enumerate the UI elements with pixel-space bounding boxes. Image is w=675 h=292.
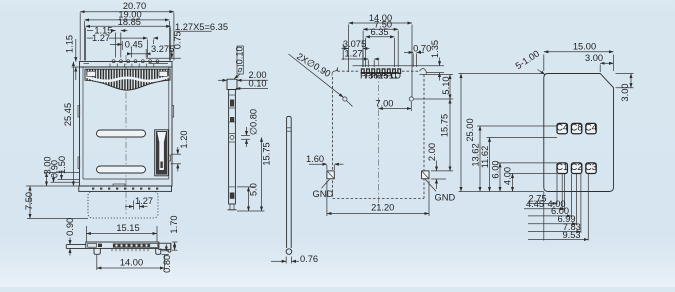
dim 0.45 xyxy=(110,43,122,45)
dim 1.27 card xyxy=(125,196,153,210)
body bottom inner line xyxy=(83,178,169,180)
body inner edge lines xyxy=(82,67,84,179)
pads row xyxy=(361,68,401,74)
dim 0.80 rotated xyxy=(162,250,169,252)
dim 1.35 rotated xyxy=(353,65,445,67)
oval slot 1 xyxy=(97,130,146,137)
svg-text:C4: C4 xyxy=(556,123,568,133)
svg-text:14.00: 14.00 xyxy=(120,258,143,268)
break squiggle right xyxy=(420,69,427,75)
dim 1.27 D xyxy=(367,60,369,67)
dim 0.90 xyxy=(53,175,55,183)
svg-text:1.27: 1.27 xyxy=(135,196,153,206)
svg-text:25.00: 25.00 xyxy=(465,118,475,141)
svg-text:0.75: 0.75 xyxy=(172,31,182,49)
svg-text:1.35: 1.35 xyxy=(430,40,440,58)
svg-text:5.0: 5.0 xyxy=(249,183,259,196)
dim 6.00 b xyxy=(528,215,571,217)
break squiggle left xyxy=(332,67,338,76)
right bar xyxy=(159,243,171,249)
flange solder marks xyxy=(92,188,158,190)
svg-text:0.80: 0.80 xyxy=(162,255,172,273)
dim 1.15 top xyxy=(115,33,117,58)
left tail xyxy=(66,244,86,246)
dim 1.27 top xyxy=(147,40,149,58)
dim 5.0 rotated xyxy=(237,186,255,188)
ball tip xyxy=(286,249,292,255)
hole circle xyxy=(230,135,234,139)
svg-text:6.00: 6.00 xyxy=(491,160,501,178)
svg-text:0.10: 0.10 xyxy=(235,46,245,64)
front body xyxy=(86,242,159,248)
svg-text:21.20: 21.20 xyxy=(371,203,394,213)
centerline xyxy=(125,55,127,214)
label 5-1.00 xyxy=(514,48,542,71)
holes 2x xyxy=(343,97,347,101)
dim 15.75 D rotated xyxy=(431,170,453,172)
dim 0.76 xyxy=(285,257,287,264)
pins row circles xyxy=(112,60,159,63)
centerline xyxy=(377,60,379,206)
plate step lines xyxy=(84,63,90,65)
dim 15.75 rotated xyxy=(237,210,265,212)
dim 2.00 xyxy=(218,79,227,81)
svg-text:0.76: 0.76 xyxy=(300,254,318,264)
svg-text:1.60: 1.60 xyxy=(306,154,324,164)
svg-text:15.75: 15.75 xyxy=(262,142,272,165)
dim 0.10 xyxy=(236,88,268,90)
svg-text:3.075: 3.075 xyxy=(343,39,366,49)
dim 1.15 left rotated xyxy=(75,39,77,62)
dim 7.00 xyxy=(410,102,412,111)
dim 2.75 xyxy=(528,202,557,204)
dim 14.00 xyxy=(96,255,98,270)
svg-text:0.10: 0.10 xyxy=(249,79,267,89)
svg-text:GND: GND xyxy=(313,189,334,199)
dashed card outline xyxy=(88,192,158,219)
spring cutout left xyxy=(87,71,96,76)
svg-text:9.53: 9.53 xyxy=(562,230,580,240)
dim 9.53 xyxy=(528,239,588,241)
dim 3.275 xyxy=(131,47,133,58)
svg-text:7.50: 7.50 xyxy=(24,192,34,210)
switch detail xyxy=(155,130,171,176)
dim 15.15 xyxy=(85,226,87,242)
bottom flange xyxy=(79,186,172,191)
bottom dim stack xyxy=(543,192,545,241)
dim 7.83 xyxy=(528,231,581,233)
oval slot 2 xyxy=(97,166,146,173)
svg-text:1.70: 1.70 xyxy=(169,215,179,233)
flange mid notch xyxy=(113,184,125,186)
top plate bottom line xyxy=(80,66,173,68)
GND pad right xyxy=(422,171,429,179)
dim 25.45 rotated xyxy=(72,62,74,186)
head xyxy=(227,79,237,89)
dim 7.50 xyxy=(362,31,364,68)
svg-text:C8: C8 xyxy=(571,123,583,133)
dim 6.35 xyxy=(365,38,367,67)
svg-text:6.35: 6.35 xyxy=(370,27,388,37)
svg-text:1.27X5=6.35: 1.27X5=6.35 xyxy=(175,22,228,32)
svg-text:3.275: 3.275 xyxy=(151,44,174,54)
inner details xyxy=(88,243,97,247)
left dims xyxy=(459,73,544,75)
dim 3.00 xyxy=(46,173,48,186)
svg-text:4.45: 4.45 xyxy=(526,199,544,209)
svg-text:4.00: 4.00 xyxy=(503,167,513,185)
label 2X 0.90 xyxy=(295,51,332,79)
svg-text:0.45: 0.45 xyxy=(125,40,143,50)
svg-text:P7P3P6P2P5P1CD: P7P3P6P2P5P1CD xyxy=(360,70,401,80)
dim 1.20 rotated xyxy=(171,153,181,155)
svg-text:C1: C1 xyxy=(556,162,568,172)
dim 4.45 / 4.00 xyxy=(524,208,564,210)
svg-text:0.70: 0.70 xyxy=(413,43,431,53)
flatness frame xyxy=(237,46,243,74)
bottom block xyxy=(230,193,235,199)
dim 0.90 front rotated xyxy=(69,238,71,245)
svg-text:2.00: 2.00 xyxy=(427,143,437,161)
GND pad left xyxy=(327,171,334,179)
dim phi 0.80 rotated xyxy=(241,135,250,137)
dim 5.10 rotated xyxy=(420,74,454,76)
svg-text:1.15: 1.15 xyxy=(65,35,75,53)
svg-text:7.00: 7.00 xyxy=(375,99,393,109)
ext lines xyxy=(44,172,80,174)
pin ticks under body xyxy=(112,248,148,251)
dim 11.62 xyxy=(487,136,558,138)
spring band hatched xyxy=(85,69,170,90)
svg-text:C3: C3 xyxy=(585,162,597,172)
card outline xyxy=(544,74,614,192)
body outer rect xyxy=(80,62,173,187)
svg-text:2X∅0.90: 2X∅0.90 xyxy=(295,51,332,79)
dim 3.00 top xyxy=(599,65,601,73)
svg-text:GND: GND xyxy=(435,193,456,203)
dim 1.60 xyxy=(326,165,328,170)
dim 2.00 D rotated xyxy=(431,178,446,180)
svg-text:1.20: 1.20 xyxy=(179,130,189,148)
svg-text:15.75: 15.75 xyxy=(439,114,449,137)
dim 1.70 rotated xyxy=(172,241,178,243)
side tabs xyxy=(78,106,80,118)
dim 15.00 xyxy=(543,55,545,72)
dim 6.00 xyxy=(497,162,557,164)
svg-text:3.00: 3.00 xyxy=(620,83,630,101)
svg-text:5-1.00: 5-1.00 xyxy=(514,48,542,71)
svg-text:1.50: 1.50 xyxy=(57,156,67,174)
dashed outline xyxy=(338,70,360,72)
dim 3.00 right rotated xyxy=(616,73,634,75)
dim 7.50 xyxy=(29,186,31,219)
svg-text:1.27: 1.27 xyxy=(92,33,110,43)
pin ticks in plate xyxy=(110,64,154,67)
svg-text:15.15: 15.15 xyxy=(116,223,139,233)
dim 20.70 xyxy=(79,13,81,61)
dim 0.70 xyxy=(412,54,414,68)
dim 6.99 xyxy=(528,223,577,225)
dim 13.62 xyxy=(477,125,557,127)
svg-text:C4: C4 xyxy=(585,123,597,133)
dim 3.075 xyxy=(362,50,364,68)
dim 21.20 xyxy=(326,181,328,217)
dim 4.00 left xyxy=(509,173,557,175)
dim 14.00 xyxy=(348,25,350,73)
svg-text:5.10: 5.10 xyxy=(441,76,451,94)
dim 18.85 xyxy=(85,28,87,61)
dim 19.00 xyxy=(84,21,86,61)
leader xyxy=(234,74,240,79)
feet xyxy=(94,248,100,254)
svg-text:∅0.80: ∅0.80 xyxy=(249,109,259,135)
spring white channel xyxy=(87,77,169,81)
svg-text:15.00: 15.00 xyxy=(573,42,596,52)
svg-text:C2: C2 xyxy=(571,162,583,172)
svg-text:0.90: 0.90 xyxy=(65,218,75,236)
svg-text:1.27: 1.27 xyxy=(344,49,362,59)
svg-text:3.00: 3.00 xyxy=(585,53,603,63)
svg-text:18.85: 18.85 xyxy=(118,17,141,27)
dim 1.50 xyxy=(61,171,63,180)
svg-text:11.62: 11.62 xyxy=(480,146,490,169)
svg-text:25.45: 25.45 xyxy=(63,103,73,126)
pads row1 xyxy=(557,123,596,173)
dim 0.75 rotated xyxy=(146,57,181,59)
spring cutout right xyxy=(159,71,168,76)
svg-text:13.62: 13.62 xyxy=(471,143,481,166)
strip body xyxy=(229,90,236,205)
